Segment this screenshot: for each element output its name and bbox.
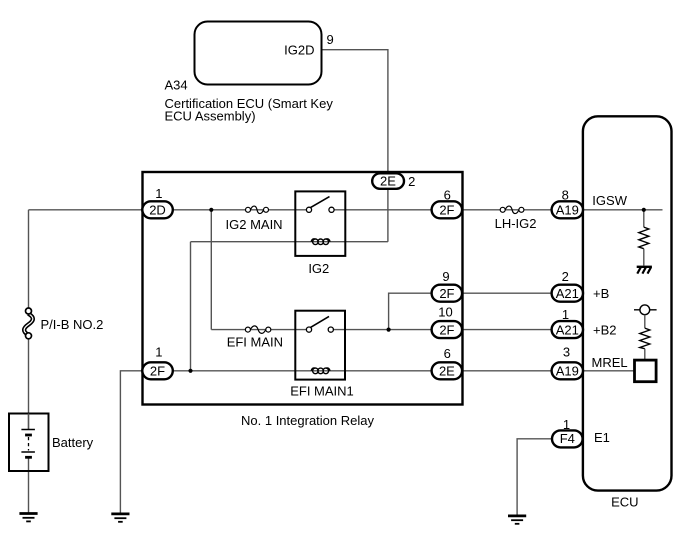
svg-text:1: 1 xyxy=(155,186,162,201)
wire EFI MAIN fuse row xyxy=(211,329,309,331)
fuse EFI MAIN xyxy=(245,326,270,334)
svg-text:IG2: IG2 xyxy=(308,261,329,276)
connector 2F pin6 oval (right top) xyxy=(432,201,463,218)
svg-text:2F: 2F xyxy=(439,286,454,301)
resistor R internal IGSW xyxy=(639,227,649,249)
svg-text:A34: A34 xyxy=(165,77,188,92)
svg-text:F4: F4 xyxy=(560,431,575,446)
svg-text:2: 2 xyxy=(408,174,415,189)
connector A21 pin1 oval xyxy=(552,321,583,338)
svg-text:9: 9 xyxy=(442,269,449,284)
svg-text:ECU Assembly): ECU Assembly) xyxy=(165,109,256,124)
svg-text:6: 6 xyxy=(444,346,451,361)
wire IG2 switch output to ECU internal xyxy=(332,209,663,211)
chassis ground (hatched) xyxy=(637,267,652,274)
wire bottom row (2F1 through EFI MAIN1 coil, 2E6, A19-3 to MREL square) xyxy=(142,370,635,372)
connector 2D pin1 oval xyxy=(142,201,173,218)
ECU box xyxy=(583,116,672,490)
svg-text:IG2D: IG2D xyxy=(284,43,314,58)
MREL driver square xyxy=(635,360,657,382)
connector A21 pin2 oval xyxy=(552,285,583,302)
A34 Certification ECU box xyxy=(195,22,322,85)
wire 2F pin1 to ground xyxy=(120,371,141,514)
svg-text:2F: 2F xyxy=(439,322,454,337)
svg-text:2E: 2E xyxy=(380,174,396,189)
wire IG2 coil row xyxy=(191,241,388,243)
fuse LH-IG2 xyxy=(500,206,524,214)
wire from IG2D pin 9 to 2E xyxy=(322,50,388,242)
resistor R internal MREL xyxy=(640,328,650,349)
relay IG2 switch xyxy=(306,197,334,213)
svg-text:+B: +B xyxy=(593,286,609,301)
wire battery to ground xyxy=(28,457,30,513)
svg-text:A19: A19 xyxy=(556,364,579,379)
svg-text:EFI MAIN: EFI MAIN xyxy=(227,335,283,350)
svg-text:+B2: +B2 xyxy=(593,322,617,337)
svg-text:MREL: MREL xyxy=(592,355,628,370)
relay IG2 coil xyxy=(311,239,330,245)
svg-text:IG2 MAIN: IG2 MAIN xyxy=(226,217,283,232)
svg-text:EFI MAIN1: EFI MAIN1 xyxy=(290,383,354,398)
terminal circle above internal resistor (+B2 feed) xyxy=(634,309,657,311)
fuse IG2 MAIN xyxy=(246,206,269,214)
svg-text:A21: A21 xyxy=(556,286,579,301)
svg-text:3: 3 xyxy=(563,345,570,360)
battery B1 xyxy=(9,414,49,472)
junction dot EFI output branch xyxy=(387,328,391,332)
svg-text:8: 8 xyxy=(562,187,569,202)
connector 2E pin6 oval (right bottom) xyxy=(432,362,463,379)
wire branch up to 2F pin9 / +B row xyxy=(389,293,580,329)
connector 2E pin2 oval (top) xyxy=(372,173,404,189)
junction dot at 2D branch xyxy=(209,208,213,212)
No.1 Integration Relay box xyxy=(143,172,463,405)
ground (E1) xyxy=(508,516,526,524)
svg-text:2: 2 xyxy=(562,269,569,284)
wire circle to resistor xyxy=(644,315,646,328)
svg-text:Battery: Battery xyxy=(52,435,94,450)
svg-text:IGSW: IGSW xyxy=(592,193,627,208)
fusible link P/I-B NO.2 xyxy=(24,308,33,339)
wire vertical IG2 coil return xyxy=(190,242,192,371)
wire EFI MAIN1 switch output row xyxy=(331,329,580,331)
connector A19 pin3 oval xyxy=(552,362,583,379)
connector 2F pin1 oval (left bottom) xyxy=(142,362,173,379)
connector 2F pin10 oval xyxy=(432,321,463,338)
connector A19 pin8 oval xyxy=(552,201,583,218)
node row IGSW wire left segment (battery to IG2 switch) xyxy=(29,209,310,211)
svg-text:10: 10 xyxy=(438,304,452,319)
svg-text:ECU: ECU xyxy=(611,494,638,509)
svg-text:2D: 2D xyxy=(149,203,166,218)
svg-text:9: 9 xyxy=(327,32,334,47)
svg-text:A21: A21 xyxy=(556,322,579,337)
svg-text:1: 1 xyxy=(563,417,570,432)
svg-text:A19: A19 xyxy=(556,203,579,218)
svg-text:2E: 2E xyxy=(439,364,455,379)
svg-text:2F: 2F xyxy=(439,203,454,218)
wire battery vertical upper xyxy=(28,210,30,311)
wire vertical junction to EFI MAIN fuse xyxy=(210,210,212,330)
wire resistor to chassis ground xyxy=(643,249,645,266)
svg-text:6: 6 xyxy=(444,188,451,203)
wire IGSW internal pulldown vertical xyxy=(643,210,645,227)
relay EFI MAIN1 switch xyxy=(306,316,333,332)
relay EFI MAIN1 coil xyxy=(311,368,330,374)
svg-text:2F: 2F xyxy=(150,364,165,379)
wire E1 to ground xyxy=(517,439,553,516)
junction dot at bottom row xyxy=(188,369,192,373)
svg-text:LH-IG2: LH-IG2 xyxy=(495,216,537,231)
svg-text:1: 1 xyxy=(155,344,162,359)
relay IG2 box xyxy=(295,191,345,256)
svg-text:1: 1 xyxy=(562,307,569,322)
svg-text:No. 1 Integration Relay: No. 1 Integration Relay xyxy=(241,413,374,428)
connector F4 pin1 oval xyxy=(552,430,583,447)
svg-text:P/I-B NO.2: P/I-B NO.2 xyxy=(41,317,104,332)
svg-text:E1: E1 xyxy=(594,430,610,445)
junction dot IGSW internal xyxy=(642,208,646,212)
ground (relay 2F1) xyxy=(111,514,129,522)
ground (battery) xyxy=(19,514,37,522)
connector 2F pin9 oval xyxy=(432,285,463,302)
relay EFI MAIN1 box xyxy=(295,311,345,380)
wire resistor to square xyxy=(644,349,646,360)
wire fusible link to battery xyxy=(28,336,30,430)
